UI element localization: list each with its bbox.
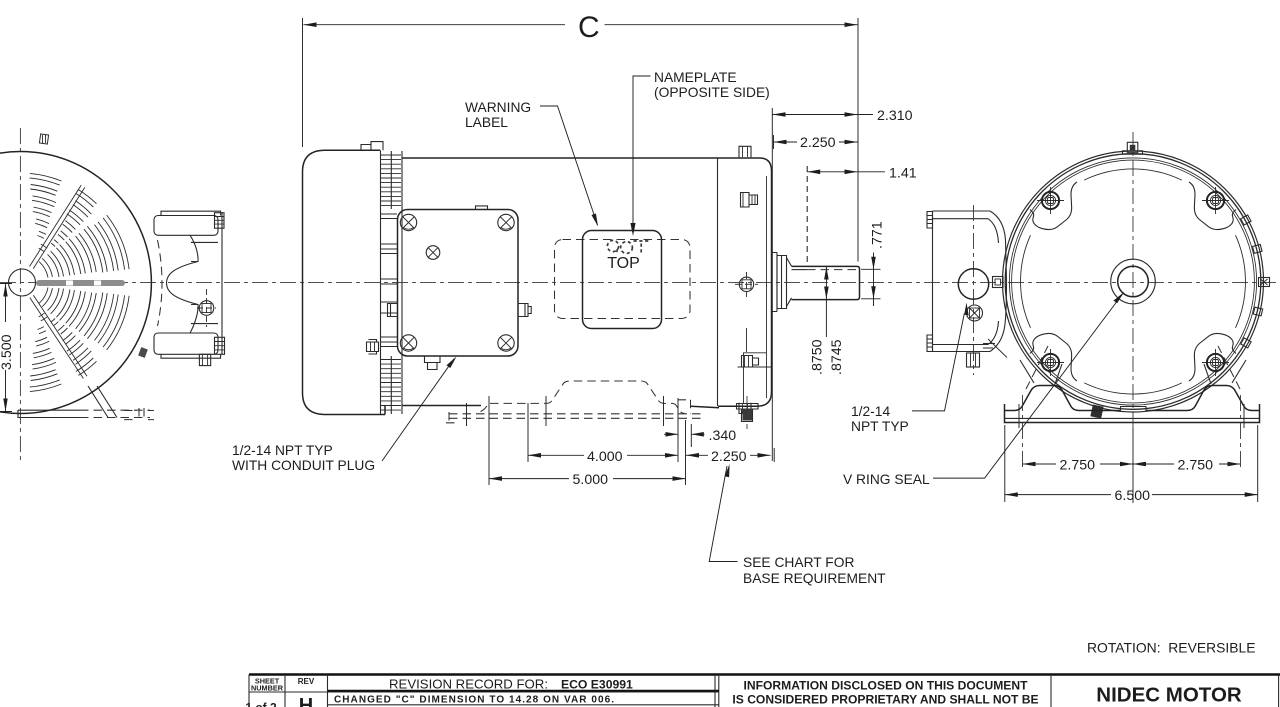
- nameplate: [583, 231, 662, 329]
- conduit box right edge: [221, 213, 223, 354]
- svg-text:CHANGED "C" DIMENSION TO 14.28: CHANGED "C" DIMENSION TO 14.28 ON VAR 00…: [334, 695, 615, 706]
- hidden edge dashed arc: [158, 240, 163, 326]
- center bolt on box side: [199, 301, 214, 316]
- label WARNING LABEL: [465, 100, 598, 227]
- label 1/2-14 NPT TYP WITH CONDUIT PLUG: [232, 357, 457, 474]
- motor body outline: [402, 158, 772, 408]
- dimension 2.250 (shaft): [774, 135, 858, 151]
- svg-text:REV: REV: [298, 677, 315, 686]
- corner screw TR: [498, 214, 514, 230]
- top clip: [1123, 142, 1143, 154]
- bottom clip (dark): [1090, 404, 1103, 418]
- pad screw LL: [1037, 349, 1064, 376]
- pad screw UL: [1037, 187, 1064, 214]
- fan cover outer circle: [0, 152, 151, 414]
- dimension .340: [664, 428, 736, 444]
- conduit box bottom bar: [154, 333, 218, 354]
- shaft slinger / v-ring: [772, 253, 792, 312]
- svg-text:.771: .771: [870, 221, 886, 249]
- dimension 2.250 (base to flange): [686, 449, 771, 465]
- svg-text:REVISION RECORD FOR:: REVISION RECORD FOR:: [389, 677, 548, 692]
- svg-text:INFORMATION DISCLOSED ON THIS: INFORMATION DISCLOSED ON THIS DOCUMENT: [744, 679, 1029, 693]
- svg-text:6.500: 6.500: [1115, 488, 1151, 504]
- svg-text:BASE REQUIREMENT: BASE REQUIREMENT: [743, 571, 886, 586]
- pad screw UR: [1202, 187, 1229, 214]
- top square tab: [739, 146, 751, 157]
- base feet (right view): [1005, 346, 1260, 470]
- cast silhouette waist: [167, 235, 199, 333]
- fan spoke upper-right: [30, 185, 85, 269]
- lifting lugs on top: [361, 142, 383, 151]
- foot hole centerlines: [1022, 395, 1024, 470]
- label SEE CHART FOR BASE REQUIREMENT: [709, 464, 886, 586]
- conduit box top plug (hatched): [215, 213, 225, 229]
- box vertical centerline: [973, 205, 975, 375]
- label NAMEPLATE (OPPOSITE SIDE): [630, 70, 769, 236]
- dimension .771: [861, 221, 886, 306]
- svg-text:(OPPOSITE SIDE): (OPPOSITE SIDE): [654, 85, 770, 100]
- bolt below box: [967, 353, 980, 367]
- svg-text:IS CONSIDERED PROPRIETARY AND: IS CONSIDERED PROPRIETARY AND SHALL NOT …: [732, 693, 1038, 707]
- nameplate TOP text: [607, 255, 640, 272]
- right side clip: [1259, 278, 1270, 287]
- vertical centerline right view: [1132, 132, 1134, 503]
- dimension 2.750 left: [1023, 458, 1241, 474]
- svg-text:1/2-14: 1/2-14: [851, 404, 890, 419]
- svg-text:ROTATION: REVERSIBLE: ROTATION: REVERSIBLE: [1087, 640, 1256, 656]
- mounting pad UR: [1189, 182, 1236, 229]
- corner screw BL: [400, 335, 416, 351]
- conduit box (right view): [927, 205, 1007, 375]
- ground screw center: [426, 246, 440, 260]
- svg-text:NAMEPLATE: NAMEPLATE: [654, 70, 737, 85]
- svg-text:.8750: .8750: [810, 339, 826, 375]
- dimension 4.000: [528, 449, 678, 465]
- shaft bar seen through grille (gray): [36, 280, 125, 286]
- note ROTATION: REVERSIBLE: [1087, 640, 1256, 656]
- shaft boss circle: [1111, 259, 1156, 304]
- svg-text:WARNING: WARNING: [465, 100, 531, 115]
- label V RING SEAL: [843, 292, 1124, 487]
- svg-text:4.000: 4.000: [587, 449, 623, 465]
- conduit box bottom plug (hatched): [215, 337, 225, 354]
- shaft: [792, 266, 860, 299]
- conduit box side view (left view): [154, 211, 225, 365]
- svg-text:V RING SEAL: V RING SEAL: [843, 472, 930, 487]
- dimension 6.500: [1005, 425, 1258, 504]
- svg-text:.8745: .8745: [829, 339, 845, 375]
- svg-text:.340: .340: [709, 428, 737, 444]
- svg-text:NIDEC MOTOR: NIDEC MOTOR: [1096, 684, 1242, 707]
- base gusset diagonals: [88, 386, 117, 418]
- dimension 5.000: [489, 472, 686, 488]
- frame inner circle arcs: [1021, 169, 1246, 394]
- fan hub circle: [9, 269, 36, 296]
- small bolt top of fan cover: [39, 134, 48, 144]
- lower hex bolt: [742, 356, 759, 368]
- dimension 2.310: [772, 108, 912, 461]
- svg-text:NUMBER: NUMBER: [251, 684, 284, 693]
- mounting pad LL: [1030, 334, 1077, 381]
- motor fan cover (side) outline: [303, 150, 386, 414]
- main horizontal centerline across all views: [0, 281, 1280, 283]
- corner screw BR: [498, 335, 514, 351]
- left view base plate: [18, 386, 154, 420]
- center bolt on flange: [739, 277, 753, 291]
- label 1/2-14 NPT TYP (right view): [851, 303, 969, 435]
- svg-text:C: C: [578, 11, 600, 44]
- fan spoke lower-right: [30, 295, 87, 378]
- mounting pad UL: [1030, 182, 1077, 229]
- side lug left: [388, 304, 398, 317]
- bottom square tab: [739, 403, 751, 414]
- inner rim circles: [1009, 158, 1256, 405]
- corner screw TL: [400, 214, 416, 230]
- svg-text:2.250: 2.250: [800, 135, 836, 151]
- svg-text:1/2-14 NPT TYP: 1/2-14 NPT TYP: [232, 443, 333, 458]
- base dashed details: [124, 408, 154, 420]
- title block borders: [249, 673, 1280, 676]
- screw below NPT hole: [967, 305, 983, 321]
- rim tabs: [1241, 215, 1263, 348]
- dimension 1.41: [807, 166, 917, 182]
- center notch: [1121, 407, 1147, 411]
- conduit box front (middle view): [388, 206, 532, 370]
- mounting pad LR: [1189, 334, 1236, 381]
- svg-text:H: H: [299, 695, 313, 707]
- svg-text:1.41: 1.41: [889, 166, 917, 182]
- svg-text:2.310: 2.310: [877, 108, 913, 124]
- nameplate ghost lettering: [607, 240, 649, 254]
- fan guard grille arcs: [30, 173, 130, 391]
- outer shroud circle: [1003, 151, 1264, 412]
- dimension 3.500 (left): [0, 284, 15, 412]
- base dashed profile (middle view): [446, 381, 702, 424]
- hex screw on body left: [367, 340, 379, 355]
- NPT hole: [958, 269, 988, 299]
- rib band: [381, 151, 403, 414]
- svg-text:3.500: 3.500: [0, 334, 15, 370]
- svg-text:ECO E30991: ECO E30991: [561, 678, 633, 692]
- small lug at box right: [993, 277, 1004, 288]
- svg-text:TOP: TOP: [607, 255, 640, 272]
- svg-text:5.000: 5.000: [573, 472, 609, 488]
- nameplate dashed outline (opposite side): [555, 240, 691, 319]
- dimension .8750/.8745: [810, 267, 846, 375]
- front foot bolt: [737, 404, 759, 422]
- pad screw LR: [1202, 349, 1229, 376]
- conduit box top bar: [154, 216, 218, 236]
- svg-text:2.750: 2.750: [1060, 458, 1096, 474]
- gusset lines: [1020, 360, 1246, 384]
- svg-text:NPT TYP: NPT TYP: [851, 419, 909, 434]
- bolt below box: [199, 354, 210, 365]
- svg-text:2.250: 2.250: [711, 449, 747, 465]
- keyway centerline ext: [806, 166, 808, 263]
- box left hatch tabs: [927, 212, 933, 229]
- svg-text:LABEL: LABEL: [465, 115, 508, 130]
- small bolt lower-left seam: [138, 347, 148, 358]
- top notch: [476, 206, 488, 210]
- svg-text:2.750: 2.750: [1178, 458, 1214, 474]
- base extension ticks: [467, 396, 775, 485]
- upper hex bolt: [741, 193, 758, 208]
- box-to-base gusset details (right view): [983, 339, 1007, 358]
- svg-text:WITH CONDUIT PLUG: WITH CONDUIT PLUG: [232, 458, 375, 473]
- svg-text:1 of 2: 1 of 2: [245, 701, 277, 707]
- end bracket seam: [718, 159, 767, 407]
- bottom conduit plug: [425, 356, 441, 370]
- side lug right: [518, 304, 531, 317]
- shaft hole circle: [1118, 266, 1149, 297]
- centerline vertical (left view): [19, 128, 21, 460]
- end bracket bolts (side view): [735, 146, 772, 429]
- dimension C: [303, 11, 859, 262]
- svg-text:SEE CHART FOR: SEE CHART FOR: [743, 555, 854, 570]
